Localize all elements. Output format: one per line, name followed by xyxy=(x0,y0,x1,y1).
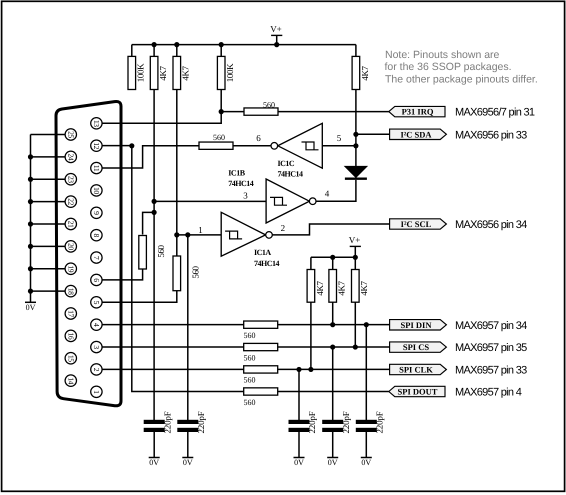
svg-text:220pF: 220pF xyxy=(341,411,351,433)
svg-text:11: 11 xyxy=(92,165,101,172)
svg-text:22: 22 xyxy=(67,198,76,205)
svg-text:25: 25 xyxy=(67,131,76,138)
svg-text:9: 9 xyxy=(92,211,101,215)
svg-text:MAX6957 pin 33: MAX6957 pin 33 xyxy=(455,365,527,377)
svg-text:0V: 0V xyxy=(328,458,338,467)
svg-text:SPI DOUT: SPI DOUT xyxy=(398,387,438,397)
svg-text:74HC14: 74HC14 xyxy=(254,259,280,268)
svg-text:220pF: 220pF xyxy=(196,411,206,433)
svg-text:4K7: 4K7 xyxy=(181,65,191,80)
svg-text:15: 15 xyxy=(67,355,76,362)
svg-text:IC1A: IC1A xyxy=(254,248,271,257)
svg-text:SPI CS: SPI CS xyxy=(403,342,429,352)
svg-text:16: 16 xyxy=(67,332,76,339)
svg-text:4K7: 4K7 xyxy=(359,280,369,295)
svg-text:4K7: 4K7 xyxy=(315,280,325,295)
svg-text:0V: 0V xyxy=(294,458,304,467)
svg-text:IC1B: IC1B xyxy=(228,168,245,177)
svg-text:MAX6956/7 pin 31: MAX6956/7 pin 31 xyxy=(455,107,535,119)
svg-text:0V: 0V xyxy=(26,303,36,312)
svg-text:24: 24 xyxy=(67,153,76,160)
svg-text:for the 36 SSOP packages.: for the 36 SSOP packages. xyxy=(385,61,512,73)
svg-text:MAX6957 pin 35: MAX6957 pin 35 xyxy=(455,342,527,354)
svg-text:The other package pinouts diff: The other package pinouts differ. xyxy=(385,74,538,86)
svg-text:MAX6957 pin 34: MAX6957 pin 34 xyxy=(455,320,527,332)
svg-text:7: 7 xyxy=(92,256,101,260)
svg-text:18: 18 xyxy=(67,288,76,295)
svg-text:560: 560 xyxy=(244,353,256,362)
svg-text:560: 560 xyxy=(263,101,275,110)
svg-text:MAX6957 pin 4: MAX6957 pin 4 xyxy=(455,387,522,399)
svg-text:20: 20 xyxy=(67,243,76,250)
svg-text:4K7: 4K7 xyxy=(360,65,370,80)
svg-text:4K7: 4K7 xyxy=(158,65,168,80)
svg-text:2: 2 xyxy=(92,368,101,372)
svg-text:560: 560 xyxy=(156,244,166,257)
svg-text:4: 4 xyxy=(92,323,101,327)
svg-text:1: 1 xyxy=(198,225,202,235)
svg-text:0V: 0V xyxy=(183,458,193,467)
svg-text:SPI DIN: SPI DIN xyxy=(401,320,433,330)
svg-text:74HC14: 74HC14 xyxy=(278,169,304,178)
svg-text:MAX6956 pin 34: MAX6956 pin 34 xyxy=(455,219,527,231)
svg-text:100K: 100K xyxy=(225,63,235,82)
svg-text:0V: 0V xyxy=(361,458,371,467)
svg-text:560: 560 xyxy=(244,398,256,407)
svg-text:8: 8 xyxy=(92,233,101,237)
svg-text:10: 10 xyxy=(92,187,101,194)
svg-text:5: 5 xyxy=(92,301,101,305)
svg-text:V+: V+ xyxy=(270,24,282,34)
svg-text:23: 23 xyxy=(67,176,76,183)
svg-text:I²C SCL: I²C SCL xyxy=(401,219,432,229)
svg-text:4K7: 4K7 xyxy=(337,280,347,295)
svg-text:100K: 100K xyxy=(136,63,146,82)
svg-text:19: 19 xyxy=(67,265,76,272)
svg-text:220pF: 220pF xyxy=(162,411,172,433)
svg-text:560: 560 xyxy=(244,331,256,340)
svg-text:MAX6956 pin 33: MAX6956 pin 33 xyxy=(455,129,527,141)
svg-text:560: 560 xyxy=(190,265,200,278)
svg-text:74HC14: 74HC14 xyxy=(228,179,254,188)
svg-text:560: 560 xyxy=(244,376,256,385)
svg-text:P31 IRQ: P31 IRQ xyxy=(402,107,434,117)
svg-text:14: 14 xyxy=(67,377,76,384)
svg-text:2: 2 xyxy=(281,223,285,233)
svg-text:I²C SDA: I²C SDA xyxy=(400,129,432,139)
svg-text:220pF: 220pF xyxy=(375,411,385,433)
svg-text:12: 12 xyxy=(92,142,101,149)
svg-text:IC1C: IC1C xyxy=(278,159,295,168)
svg-text:SPI CLK: SPI CLK xyxy=(399,365,433,375)
svg-text:17: 17 xyxy=(67,310,76,317)
svg-text:13: 13 xyxy=(92,120,101,127)
svg-text:1: 1 xyxy=(92,390,101,394)
svg-text:0V: 0V xyxy=(149,458,159,467)
svg-text:560: 560 xyxy=(213,133,225,142)
svg-text:3: 3 xyxy=(92,345,101,349)
svg-text:6: 6 xyxy=(92,278,101,282)
svg-text:21: 21 xyxy=(67,221,76,228)
svg-text:220pF: 220pF xyxy=(307,411,317,433)
svg-text:V+: V+ xyxy=(349,235,361,245)
svg-text:Note: Pinouts shown are: Note: Pinouts shown are xyxy=(385,49,500,61)
